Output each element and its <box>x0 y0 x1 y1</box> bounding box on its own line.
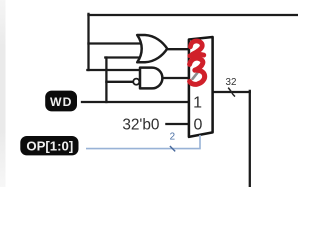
wire WD to mux input 1 <box>82 101 189 103</box>
or-gate OR1 <box>137 35 167 62</box>
wire mux output <box>212 91 250 93</box>
wire OR gate top input <box>89 42 142 44</box>
wire top feedback: from right edge to left vertical <box>89 14 299 16</box>
wire AND output to mux input 3 <box>162 77 189 79</box>
wire OR output to mux input 2 <box>166 48 189 50</box>
annotation red handwritten 3 <box>190 58 205 84</box>
node WD input badge <box>45 91 77 112</box>
bus width slash 32 on output <box>228 88 235 97</box>
wire AND gate inverted input <box>106 81 133 83</box>
svg-text:2: 2 <box>170 132 175 143</box>
annotation red handwritten 2 <box>190 41 204 56</box>
mux M1 body <box>189 37 213 137</box>
gray mark under red 3 <box>193 72 198 79</box>
svg-text:0: 0 <box>194 117 203 134</box>
wire WD branch vertical <box>105 58 107 103</box>
svg-text:32'b0: 32'b0 <box>122 116 159 133</box>
inverter bubble on AND1 lower input <box>133 79 139 85</box>
and-gate AND1 <box>140 68 162 89</box>
wire AND gate top input <box>87 69 140 71</box>
wire select (blue) from OP[1:0] to mux <box>86 135 200 149</box>
wire left vertical drop <box>87 14 89 70</box>
bus width slash 2 on select <box>170 146 175 151</box>
svg-text:1: 1 <box>193 95 202 112</box>
wire 32'b0 to mux input 0 <box>166 123 188 125</box>
wire OR gate bottom input <box>105 56 141 58</box>
svg-text:32: 32 <box>226 77 237 88</box>
wire result vertical to bottom edge <box>249 91 251 187</box>
svg-text:OP[1:0]: OP[1:0] <box>26 138 73 153</box>
svg-text:WD: WD <box>50 95 73 109</box>
node OP[1:0] input badge <box>20 136 78 155</box>
